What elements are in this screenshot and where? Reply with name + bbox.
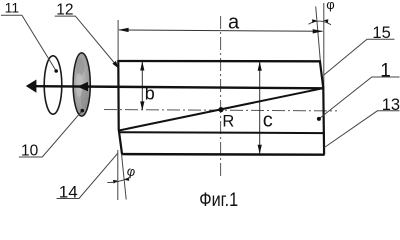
label 1 with leader <box>317 60 400 121</box>
internal beam lower segment <box>119 131 324 134</box>
dimension a line <box>118 28 323 34</box>
internal beam diagonal <box>119 88 323 130</box>
lens 11 (output mirror, white ellipse) <box>44 56 62 114</box>
active element body (side faces) <box>118 60 325 155</box>
label 12 with leader <box>55 1 119 68</box>
dimension c line <box>258 62 262 155</box>
svg-text:Фиг.1: Фиг.1 <box>199 190 238 211</box>
label 13 with leader <box>324 96 400 148</box>
right face <box>320 60 324 154</box>
vertical centerline (dash-dot) <box>220 16 222 176</box>
svg-text:R: R <box>222 112 234 130</box>
svg-text:c: c <box>263 109 273 131</box>
left face extension line (angle phi) <box>121 151 126 200</box>
svg-text:11: 11 <box>5 0 20 16</box>
vertical reference line bottom left <box>117 150 119 200</box>
bottom edge <box>122 153 325 156</box>
svg-text:a: a <box>228 12 240 34</box>
label 15 with leader <box>324 24 395 75</box>
label 10 with leader <box>19 109 84 160</box>
angle phi top right <box>309 0 335 25</box>
angle phi bottom left <box>107 163 137 184</box>
vertical reference line top right <box>323 3 325 88</box>
top edge <box>118 60 320 63</box>
right face extension line (angle phi) <box>316 7 321 65</box>
dimension a extension line left <box>117 20 119 60</box>
horizontal optical axis (dash-dot centerline) <box>104 110 337 111</box>
dimension b line <box>140 61 144 110</box>
output beam with arrow <box>26 80 324 93</box>
label 11 with leader <box>1 0 58 73</box>
label 14 with leader <box>57 153 118 201</box>
pump source 10 (gray disc) <box>73 53 90 116</box>
svg-text:φ: φ <box>326 0 334 12</box>
svg-text:1: 1 <box>380 60 391 81</box>
center point R <box>218 107 223 112</box>
left face <box>118 60 122 154</box>
